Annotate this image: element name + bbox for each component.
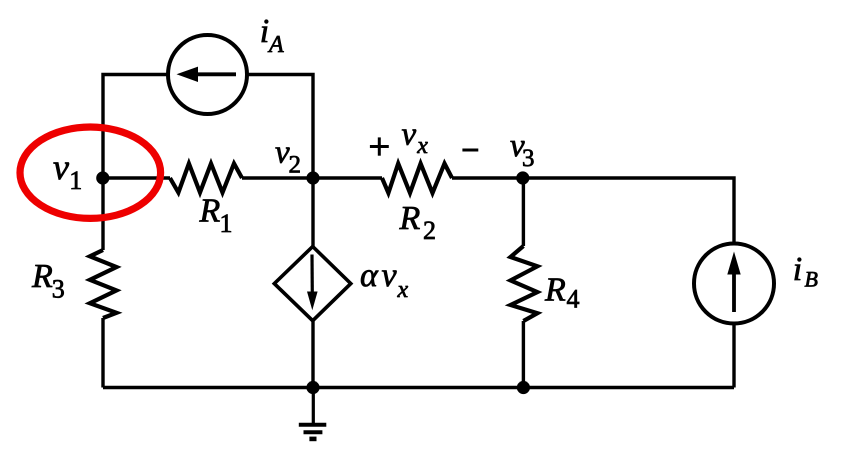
node v3 dot [516, 171, 529, 184]
current source iA circle [168, 35, 247, 114]
dependent source diamond [274, 247, 351, 321]
svg-text:i: i [260, 13, 269, 50]
label alpha vx [360, 257, 409, 303]
resistor R1 [170, 164, 242, 193]
wire R1 to v2 [242, 176, 313, 179]
svg-text:3: 3 [522, 145, 535, 172]
svg-text:v: v [382, 257, 398, 294]
wire dependent source to bottom rail [311, 321, 314, 388]
wire R4 to bottom rail [522, 321, 525, 388]
wire bottom rail [103, 386, 734, 390]
label vx [402, 117, 429, 160]
resistor R4 [511, 246, 538, 321]
current source iB circle [694, 244, 774, 324]
svg-text:2: 2 [289, 152, 302, 179]
svg-text:B: B [805, 267, 818, 292]
wire top-left horizontal from left corner to source iA [103, 75, 168, 251]
label vx plus sign [370, 137, 389, 155]
wire source iB bottom to bottom-right corner [732, 324, 735, 388]
red highlight ellipse around node v1 [20, 127, 161, 218]
svg-text:1: 1 [69, 166, 82, 195]
svg-text:x: x [416, 133, 428, 159]
label iB [793, 251, 818, 292]
current source iA arrow [177, 67, 237, 82]
label iA [260, 13, 284, 58]
svg-text:3: 3 [52, 275, 65, 304]
node v2 dot [306, 171, 319, 184]
label R2 [399, 200, 437, 245]
wire v2 to R2 [313, 176, 382, 179]
svg-text:4: 4 [567, 285, 580, 314]
wire v3 to top-right corner and down to source iB [523, 178, 734, 244]
resistor R2 [382, 164, 452, 194]
resistor R3 [90, 250, 117, 318]
wire left vertical below R3 [101, 318, 104, 388]
label R4 [544, 272, 580, 314]
wire v3 down to R4 [522, 178, 525, 246]
node junction R4 bottom dot [517, 381, 530, 394]
node junction dependent source bottom dot [306, 381, 319, 394]
svg-text:R: R [544, 272, 566, 309]
wire R2 to v3 [452, 176, 523, 179]
wire v1 to R1 [103, 176, 170, 179]
svg-text:v: v [53, 147, 69, 187]
label v3 [510, 128, 535, 172]
wire v2 down to dependent source [311, 178, 314, 247]
svg-text:A: A [267, 32, 284, 58]
dependent source arrow [307, 255, 318, 311]
label R3 [31, 258, 65, 304]
current source iB arrow [727, 252, 740, 313]
label v1 [53, 147, 82, 195]
svg-text:v: v [402, 117, 417, 153]
svg-text:2: 2 [423, 216, 436, 245]
svg-text:R: R [199, 192, 221, 229]
wire from source iA right side to corner and down to node v2 [247, 75, 313, 179]
node v1 dot [96, 171, 109, 184]
svg-text:R: R [31, 258, 53, 295]
svg-text:i: i [793, 251, 802, 288]
svg-text:x: x [397, 277, 409, 303]
ground [299, 388, 327, 439]
svg-text:R: R [399, 200, 421, 237]
label vx minus sign [462, 149, 478, 152]
label v2 [275, 135, 301, 179]
svg-text:α: α [360, 257, 379, 294]
svg-text:1: 1 [220, 209, 233, 238]
label R1 [199, 192, 233, 238]
